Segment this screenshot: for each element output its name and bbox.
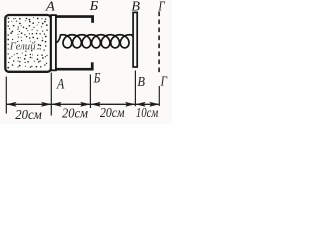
- svg-text:Б: Б: [93, 71, 101, 87]
- svg-text:Г: Г: [160, 74, 168, 89]
- svg-text:10см: 10см: [136, 106, 158, 121]
- svg-text:Б: Б: [89, 0, 99, 13]
- svg-text:Г: Г: [158, 0, 166, 13]
- svg-text:В: В: [137, 75, 145, 90]
- svg-text:Гелий: Гелий: [9, 41, 36, 52]
- svg-text:20см: 20см: [100, 106, 125, 121]
- svg-text:В: В: [131, 0, 140, 13]
- svg-text:20см: 20см: [62, 106, 88, 121]
- svg-text:А: А: [45, 0, 56, 13]
- svg-text:20см: 20см: [15, 108, 42, 123]
- svg-text:А: А: [56, 76, 64, 92]
